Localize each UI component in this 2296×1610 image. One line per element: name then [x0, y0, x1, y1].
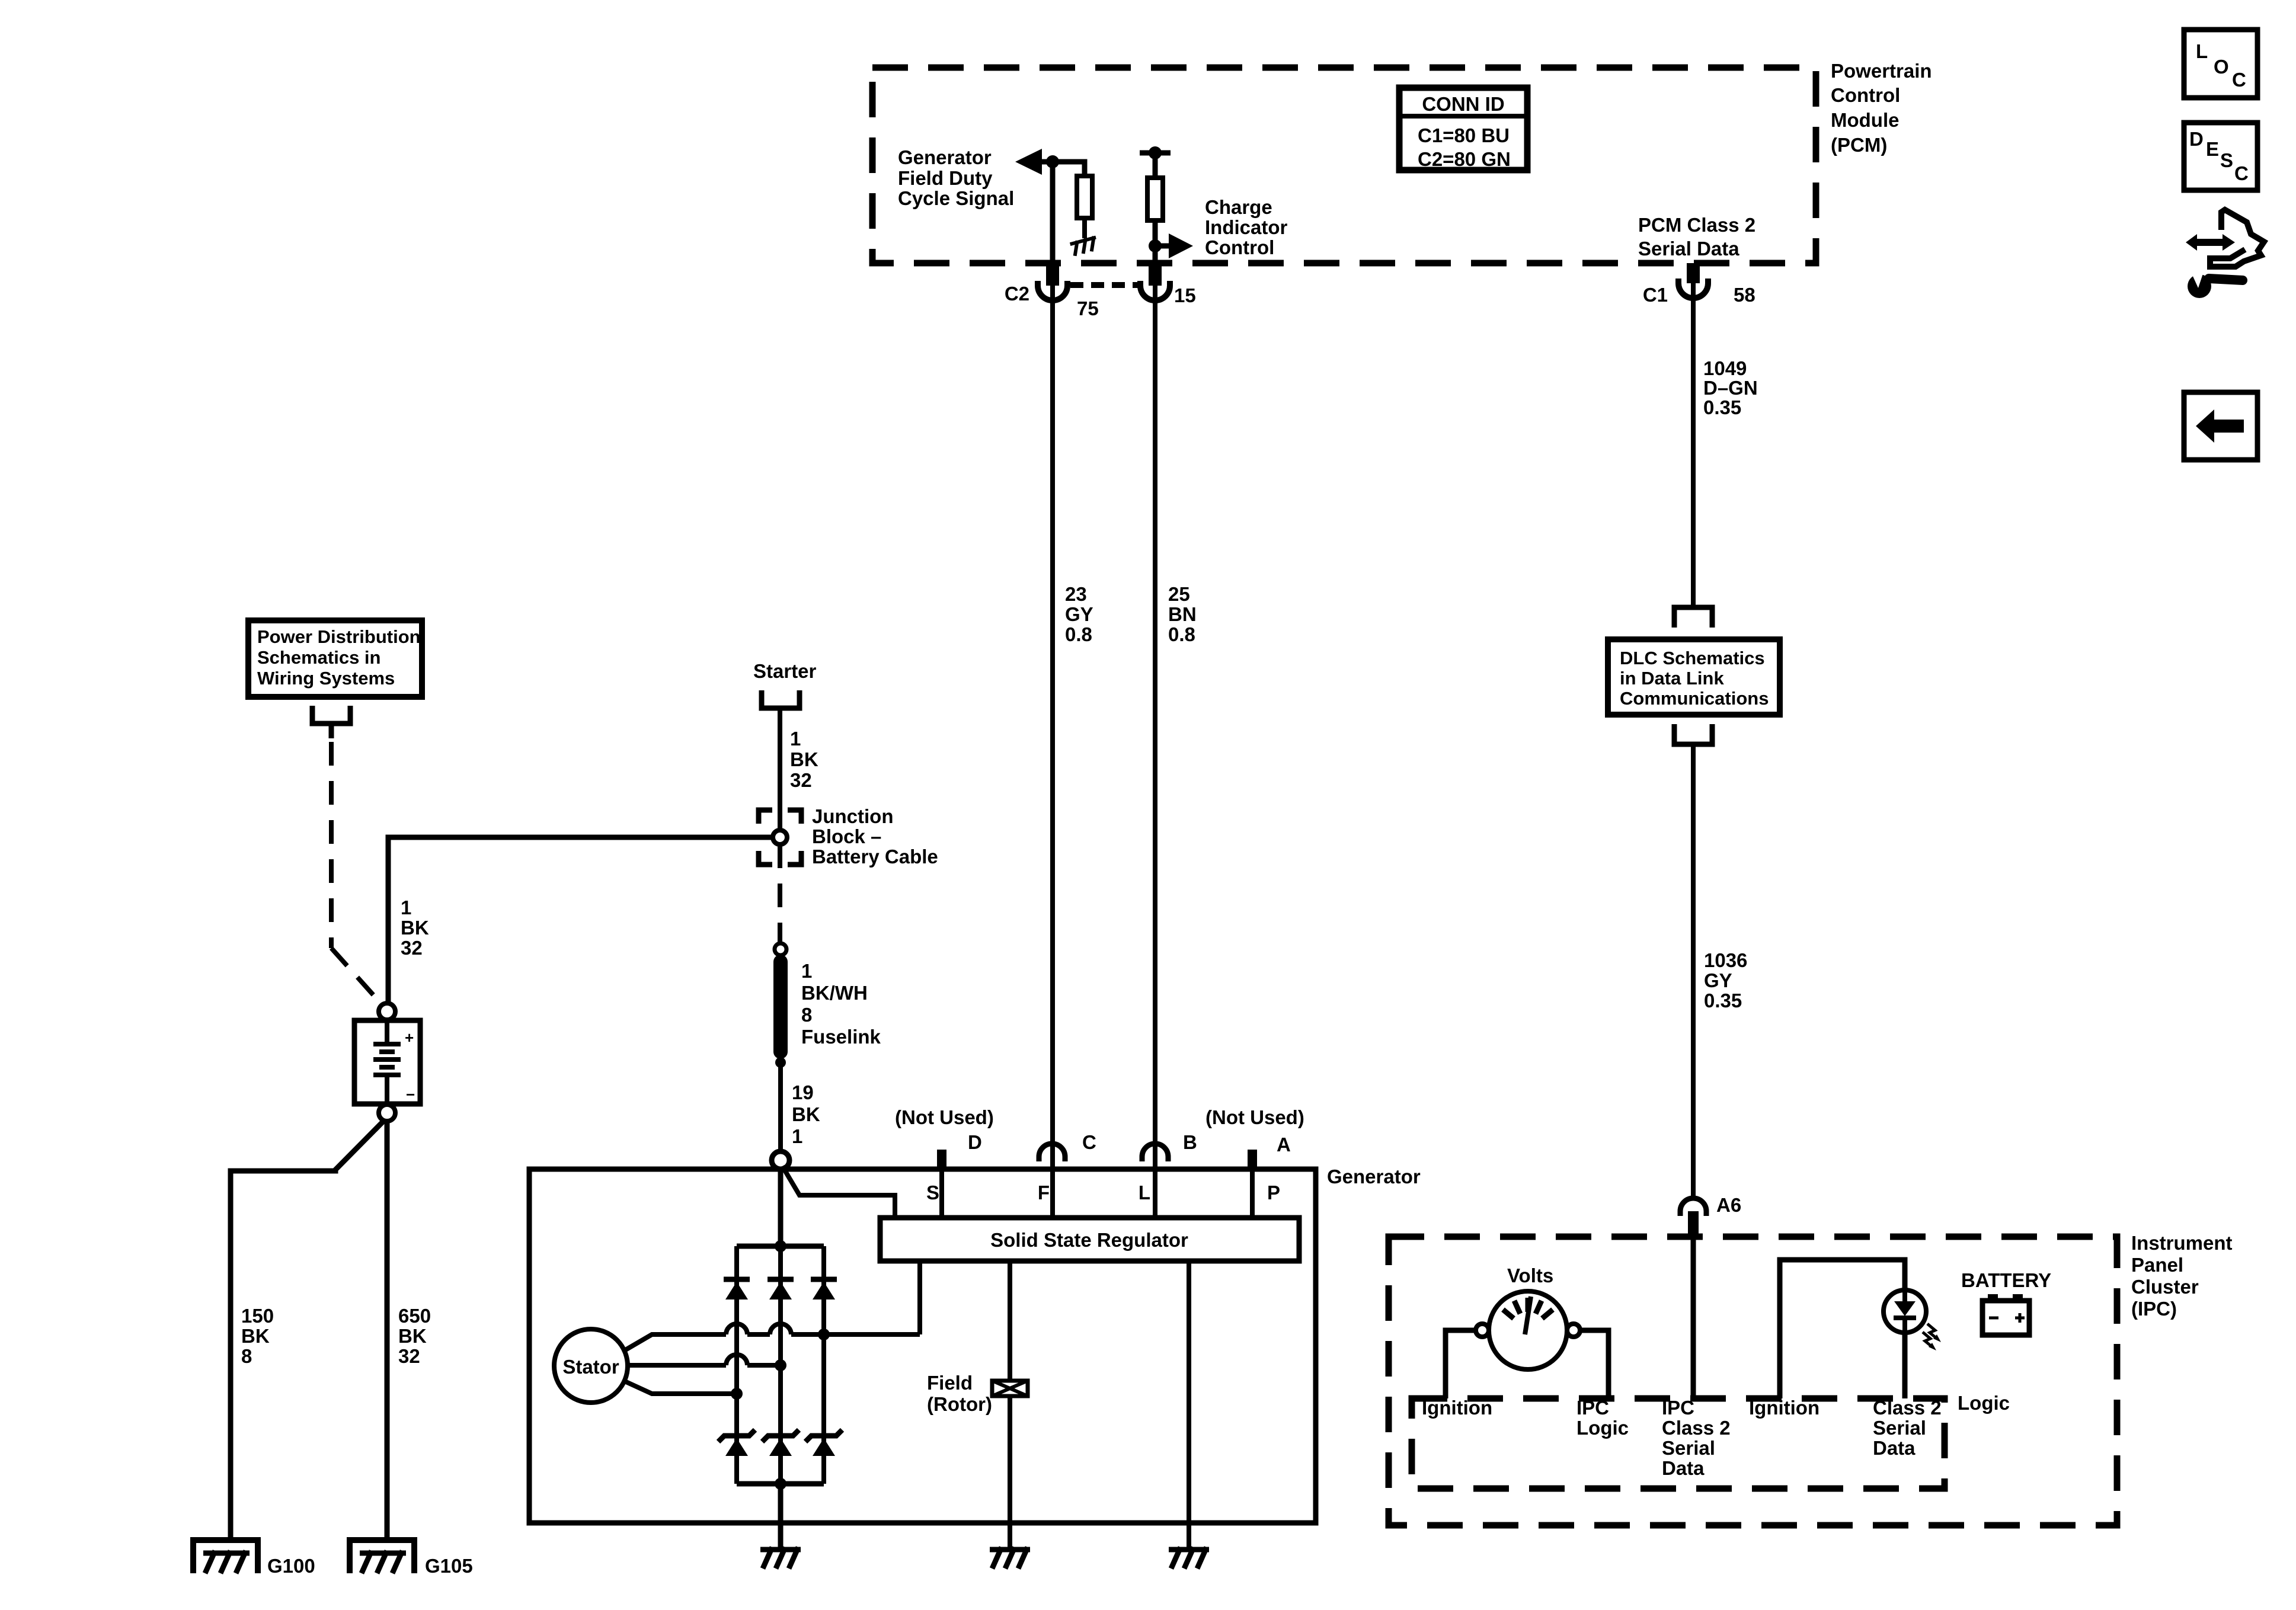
instrument panel cluster box (dashed): [1389, 1237, 2117, 1525]
svg-text:Data: Data: [1873, 1437, 1916, 1459]
ground G100: [193, 1540, 315, 1577]
svg-text:BK/WH: BK/WH: [801, 982, 868, 1004]
wire 1049 D-GN 0.35 (C1-58 to DLC): [1693, 283, 1758, 605]
connector bracket out of DLC: [1674, 724, 1712, 744]
svg-text:Logic: Logic: [1958, 1392, 2010, 1414]
svg-text:BK: BK: [792, 1103, 820, 1125]
svg-text:BK: BK: [398, 1325, 427, 1347]
svg-text:C: C: [2234, 162, 2249, 184]
zener diode Z1 (negative rectifier): [718, 1430, 755, 1456]
svg-text:Wiring Systems: Wiring Systems: [257, 668, 395, 689]
zener diode Z3 (negative rectifier): [805, 1430, 842, 1456]
label (Not Used) right: [1205, 1106, 1304, 1128]
svg-text:Communications: Communications: [1620, 688, 1769, 709]
svg-text:GY: GY: [1704, 969, 1732, 991]
label 1 BK 32 (battery cable): [401, 897, 429, 959]
svg-text:32: 32: [398, 1345, 420, 1367]
svg-text:Schematics in: Schematics in: [257, 647, 380, 668]
zener diode Z2 (negative rectifier): [762, 1430, 799, 1456]
svg-text:(IPC): (IPC): [2131, 1298, 2177, 1320]
svg-text:C: C: [1082, 1131, 1096, 1153]
wire ignition to volts gauge: [1446, 1330, 1476, 1398]
ground (PCM internal): [1070, 236, 1099, 257]
svg-text:BN: BN: [1168, 603, 1197, 625]
svg-text:A6: A6: [1716, 1194, 1741, 1216]
svg-text:L: L: [2196, 40, 2208, 62]
svg-text:F: F: [1038, 1182, 1050, 1204]
label PCM Class 2 Serial Data: [1638, 214, 1755, 260]
resistor R1 (field duty pull): [1077, 176, 1092, 218]
wire: generator field duty cycle signal arrow: [1015, 149, 1083, 175]
volts gauge left terminal: [1476, 1324, 1489, 1337]
LED charge indicator: [1884, 1290, 1926, 1333]
svg-text:Serial: Serial: [1873, 1417, 1926, 1439]
svg-text:1: 1: [792, 1125, 802, 1147]
svg-text:IPC: IPC: [1662, 1397, 1694, 1419]
svg-text:A: A: [1277, 1134, 1291, 1156]
solid state regulator: [880, 1218, 1299, 1261]
svg-text:−: −: [406, 1086, 415, 1103]
node: top bus junction: [775, 1240, 786, 1252]
svg-text:32: 32: [790, 769, 812, 791]
node: junction block terminal: [773, 830, 787, 844]
node: fuselink bottom dot: [775, 1057, 786, 1068]
label 650 BK 32: [398, 1305, 431, 1367]
connector A6: [1680, 1194, 1741, 1237]
svg-text:C2: C2: [1005, 283, 1029, 305]
LOC icon: [2184, 30, 2257, 98]
svg-text:Class 2: Class 2: [1662, 1417, 1731, 1439]
label Charge Indicator Control: [1205, 196, 1288, 258]
svg-text:Starter: Starter: [753, 660, 817, 682]
svg-text:BK: BK: [790, 748, 818, 770]
junction block - battery cable (dashed corners): [759, 810, 801, 865]
stator phase wire 1 (top): [623, 1261, 920, 1351]
svg-text:D: D: [2189, 128, 2204, 150]
wire 25 BN 0.8 (15 to generator L): [1155, 286, 1197, 1218]
dashed wire junction block to fuselink: [778, 844, 782, 943]
wire A6 to IPC logic (IPC class 2 serial data): [1691, 1237, 1696, 1398]
label BATTERY: [1961, 1269, 2051, 1291]
svg-text:19: 19: [792, 1081, 814, 1103]
pin labels S F L P: [926, 1182, 1280, 1204]
connector C2 pin 75: [1005, 263, 1099, 319]
svg-text:1: 1: [790, 728, 801, 750]
svg-text:23: 23: [1065, 583, 1087, 605]
svg-text:Class 2: Class 2: [1873, 1397, 1942, 1419]
battery: [354, 1020, 420, 1104]
svg-text:G100: G100: [267, 1555, 315, 1577]
svg-text:E: E: [2206, 138, 2219, 160]
label Ignition (volts): [1422, 1397, 1492, 1419]
stator phase wire 2 (middle): [628, 1355, 781, 1365]
wire volts gauge to IPC logic: [1580, 1330, 1609, 1398]
stator phase wire 3 (bottom): [623, 1381, 737, 1394]
pin D stub: [937, 1131, 982, 1169]
svg-text:Data: Data: [1662, 1457, 1705, 1479]
svg-text:D: D: [968, 1131, 982, 1153]
label Volts: [1507, 1265, 1553, 1286]
node: field duty junction dot: [1046, 155, 1059, 168]
svg-text:32: 32: [401, 937, 423, 959]
diode D3 (positive rectifier): [811, 1279, 837, 1299]
wire 19 BK 1: [781, 1062, 820, 1151]
svg-text:Stator: Stator: [562, 1356, 619, 1378]
svg-text:0.35: 0.35: [1703, 396, 1741, 418]
Power Distribution Schematics box: [248, 620, 422, 697]
PCM module box (dashed): [872, 68, 1816, 263]
svg-text:Instrument: Instrument: [2131, 1232, 2233, 1254]
svg-text:75: 75: [1077, 297, 1099, 319]
label Logic: [1958, 1392, 2010, 1414]
svg-text:IPC: IPC: [1576, 1397, 1609, 1419]
svg-text:S: S: [2220, 149, 2233, 171]
ground G105: [350, 1540, 473, 1577]
node: bottom bus junction: [775, 1478, 786, 1490]
svg-text:Battery Cable: Battery Cable: [812, 846, 938, 868]
svg-text:Fuselink: Fuselink: [801, 1026, 881, 1048]
svg-text:25: 25: [1168, 583, 1190, 605]
DESC icon: [2184, 123, 2257, 190]
rectifier column 2 wire: [778, 1246, 783, 1484]
rectifier bottom bus: [737, 1481, 824, 1487]
wire B+ node to rectifier bus: [778, 1169, 784, 1246]
svg-text:PCM Class 2: PCM Class 2: [1638, 214, 1755, 236]
pin wires into regulator: [942, 1169, 1252, 1218]
svg-text:1036: 1036: [1704, 949, 1747, 971]
wire B+ node to S terminal (dog-leg): [782, 1166, 895, 1218]
wire rectifier bottom bus to ground: [778, 1484, 784, 1548]
CONN ID table: [1399, 88, 1527, 170]
label Instrument Panel Cluster (IPC): [2131, 1232, 2233, 1320]
label 150 BK 8: [241, 1305, 274, 1367]
svg-text:Ignition: Ignition: [1749, 1397, 1819, 1419]
svg-text:1: 1: [801, 960, 812, 982]
svg-text:8: 8: [241, 1345, 252, 1367]
stator: [554, 1329, 628, 1403]
svg-text:Generator: Generator: [1327, 1166, 1421, 1188]
resistor R2 (charge indicator): [1147, 178, 1163, 220]
rectifier top bus: [737, 1244, 824, 1249]
svg-text:650: 650: [398, 1305, 431, 1327]
diode D1 (positive rectifier): [724, 1279, 750, 1299]
label Powertrain Control Module (PCM): [1831, 60, 1932, 156]
diagnostic navigation icon (arrow and wrench): [2186, 210, 2264, 298]
svg-text:C1: C1: [1643, 284, 1668, 306]
node: battery positive terminal: [379, 1003, 395, 1020]
svg-text:(Not Used): (Not Used): [895, 1106, 994, 1128]
label Generator: [1327, 1166, 1421, 1188]
wire battery negative to G100 (150 BK 8): [231, 1120, 385, 1540]
label Generator Field Duty Cycle Signal: [898, 146, 1014, 209]
volts gauge right terminal: [1567, 1324, 1580, 1337]
svg-text:Power Distribution: Power Distribution: [257, 626, 421, 647]
svg-text:Cluster: Cluster: [2131, 1276, 2199, 1298]
wire starter 1 BK 32: [780, 708, 818, 830]
wire ignition to LED (hoop): [1780, 1260, 1905, 1398]
connector C1 pin 58: [1643, 263, 1755, 306]
svg-text:D–GN: D–GN: [1703, 377, 1758, 399]
field rotor winding symbol: [992, 1381, 1028, 1396]
node: phase 3 to column 1: [731, 1388, 743, 1400]
LED light rays: [1923, 1324, 1941, 1350]
svg-text:Generator: Generator: [898, 146, 992, 168]
back arrow icon: [2184, 392, 2257, 460]
wire tee at charge indicator resistor top: [1140, 146, 1171, 178]
svg-text:C1=80 BU: C1=80 BU: [1418, 124, 1510, 146]
svg-text:0.8: 0.8: [1168, 623, 1195, 645]
node: charge indicator junction dot: [1149, 239, 1162, 252]
svg-text:8: 8: [801, 1004, 812, 1026]
wire LED to class 2 serial data: [1902, 1333, 1908, 1398]
svg-text:Solid State Regulator: Solid State Regulator: [990, 1229, 1188, 1251]
generator box: [529, 1169, 1316, 1523]
svg-text:Control: Control: [1205, 236, 1274, 258]
svg-text:DLC Schematics: DLC Schematics: [1620, 648, 1765, 668]
svg-text:Ignition: Ignition: [1422, 1397, 1492, 1419]
diode D2 (positive rectifier): [768, 1279, 794, 1299]
svg-text:C: C: [2232, 69, 2246, 91]
svg-text:Serial Data: Serial Data: [1638, 238, 1739, 260]
dashed connector link C2-15: [1070, 282, 1138, 288]
svg-text:BK: BK: [241, 1325, 270, 1347]
svg-text:Volts: Volts: [1507, 1265, 1553, 1286]
svg-text:C2=80 GN: C2=80 GN: [1418, 148, 1511, 170]
svg-text:GY: GY: [1065, 603, 1093, 625]
wire down to C2 pin: [1050, 162, 1056, 286]
wire resistor R2 to pin 15: [1153, 220, 1158, 286]
connector pin 15: [1140, 263, 1196, 306]
fuselink top terminal: [775, 943, 786, 955]
wire regulator F output to ground: [1008, 1261, 1012, 1548]
svg-text:G105: G105: [425, 1555, 473, 1577]
svg-text:Control: Control: [1831, 84, 1900, 106]
svg-text:Powertrain: Powertrain: [1831, 60, 1932, 82]
connector bracket below starter: [762, 690, 800, 708]
svg-text:0.8: 0.8: [1065, 623, 1092, 645]
connector bracket below power distribution box: [312, 706, 350, 738]
svg-text:Charge: Charge: [1205, 196, 1272, 218]
IPC logic box (dashed): [1412, 1398, 1945, 1489]
svg-text:150: 150: [241, 1305, 274, 1327]
svg-text:+: +: [405, 1029, 414, 1046]
svg-text:0.35: 0.35: [1704, 990, 1742, 1012]
svg-text:Logic: Logic: [1576, 1417, 1629, 1439]
svg-text:(PCM): (PCM): [1831, 134, 1887, 156]
svg-text:in Data Link: in Data Link: [1620, 668, 1724, 689]
connector B on generator: [1142, 1131, 1197, 1161]
svg-text:Cycle Signal: Cycle Signal: [898, 187, 1014, 209]
wire 23 GY 0.8 (C2-75 to generator F): [1053, 286, 1093, 1218]
label Junction Block - Battery Cable: [812, 805, 938, 868]
svg-text:Panel: Panel: [2131, 1254, 2183, 1276]
label Ignition (LED): [1749, 1397, 1819, 1419]
label IPC Logic: [1576, 1397, 1629, 1439]
svg-text:1: 1: [401, 897, 411, 918]
volts gauge: [1489, 1291, 1567, 1369]
connector bracket into DLC: [1674, 607, 1712, 628]
label Starter: [753, 660, 817, 682]
node: phase 1 to column 3: [818, 1329, 830, 1340]
label IPC Class 2 Serial Data: [1662, 1397, 1731, 1479]
wire regulator right leg to ground: [1187, 1261, 1191, 1548]
svg-text:L: L: [1139, 1182, 1150, 1204]
node: phase 2 to column 2: [775, 1359, 786, 1371]
svg-text:Block –: Block –: [812, 825, 881, 847]
charge indicator control arrow: [1155, 233, 1193, 258]
fuselink 1 BK/WH 8: [773, 955, 881, 1059]
svg-text:Field Duty: Field Duty: [898, 167, 993, 189]
dashed wire power distribution to battery: [331, 742, 383, 1006]
svg-text:Field: Field: [927, 1372, 973, 1394]
ground (regulator): [1169, 1547, 1209, 1569]
rectifier column 3 wire: [821, 1246, 826, 1484]
svg-text:15: 15: [1174, 284, 1196, 306]
pin A stub: [1248, 1134, 1291, 1169]
node: battery negative terminal: [379, 1105, 395, 1121]
svg-text:(Rotor): (Rotor): [927, 1393, 992, 1415]
svg-text:CONN ID: CONN ID: [1422, 93, 1504, 115]
DLC Schematics box: [1608, 639, 1780, 715]
svg-text:Junction: Junction: [812, 805, 894, 827]
label (Not Used) left: [895, 1106, 994, 1128]
svg-text:BATTERY: BATTERY: [1961, 1269, 2051, 1291]
svg-text:O: O: [2214, 56, 2229, 78]
wire to resistor R1: [1083, 162, 1085, 176]
ground (stator/rectifier): [760, 1547, 801, 1569]
svg-text:Module: Module: [1831, 109, 1899, 131]
svg-text:P: P: [1267, 1182, 1280, 1204]
svg-text:Serial: Serial: [1662, 1437, 1715, 1459]
svg-text:Indicator: Indicator: [1205, 216, 1288, 238]
ground (field): [990, 1547, 1030, 1569]
wire battery negative to G105: [385, 1121, 390, 1540]
node: generator B+ terminal: [772, 1151, 789, 1169]
rectifier column 1 wire: [734, 1246, 739, 1484]
svg-text:B: B: [1183, 1131, 1197, 1153]
svg-text:BK: BK: [401, 917, 429, 939]
svg-text:1049: 1049: [1703, 357, 1747, 379]
wire junction block to battery positive: [388, 837, 773, 1004]
label Field (Rotor): [927, 1372, 992, 1415]
connector C on generator: [1039, 1131, 1096, 1161]
wire 1036 GY 0.35 (DLC to IPC A6): [1693, 744, 1747, 1201]
wire resistor R1 to ground: [1082, 218, 1087, 238]
svg-text:S: S: [926, 1182, 939, 1204]
svg-text:(Not Used): (Not Used): [1205, 1106, 1304, 1128]
label Class 2 Serial Data: [1873, 1397, 1942, 1459]
svg-text:58: 58: [1734, 284, 1755, 306]
battery telltale icon: [1982, 1294, 2029, 1335]
